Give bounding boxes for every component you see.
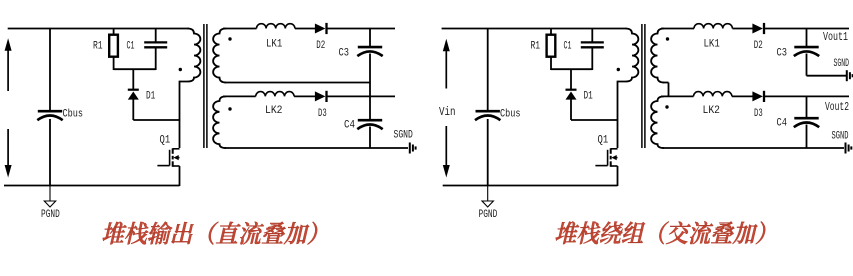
diode D1 (right) xyxy=(566,92,577,100)
svg-text:R1: R1 xyxy=(531,41,541,53)
wire: secondary1 return (left) xyxy=(225,82,371,84)
svg-text:D3: D3 xyxy=(754,108,763,120)
capacitor C4 (left) xyxy=(358,119,382,122)
capacitor C1 lead bottom (left) xyxy=(155,49,157,71)
svg-text:LK1: LK1 xyxy=(266,38,283,50)
diode D3 (left) xyxy=(315,91,326,101)
transformer T2 core (right) xyxy=(641,24,643,148)
wire: D2 to Vout1 node (right) xyxy=(764,28,849,30)
inductor LK2 (right) xyxy=(694,92,732,97)
wire: D1 to drain node (left) xyxy=(133,119,179,121)
wire: secondary1 top to LK1 (left) xyxy=(223,28,257,30)
transformer T2 secondary winding 2 (right) xyxy=(651,96,664,148)
svg-text:PGND: PGND xyxy=(479,209,498,221)
capacitor C1 lead bottom (right) xyxy=(591,49,593,71)
wire: secondary2 top to LK2 (left) xyxy=(223,95,256,97)
svg-text:C3: C3 xyxy=(777,48,788,60)
svg-text:C4: C4 xyxy=(777,117,788,129)
svg-text:SGND: SGND xyxy=(834,58,850,70)
resistor R1 lead bottom (left) xyxy=(113,57,115,71)
capacitor C4 (right) xyxy=(794,117,818,120)
caption: 堆栈输出（直流叠加） (left) xyxy=(101,222,319,245)
capacitor C3 lead top (left) xyxy=(369,29,371,47)
ground PGND (left) xyxy=(49,186,51,202)
capacitor C1 lead top (left) xyxy=(155,29,157,43)
node: secondary 1 phase dot (left) xyxy=(228,37,231,40)
diode D2 (left) xyxy=(315,24,326,34)
svg-text:LK2: LK2 xyxy=(265,105,283,117)
capacitor C3 (right) xyxy=(794,46,818,49)
svg-text:D1: D1 xyxy=(146,90,156,102)
capacitor C4 lead bottom (left) xyxy=(369,127,371,149)
resistor R1 (left) xyxy=(109,35,118,57)
transformer T1 primary winding (left) xyxy=(180,29,201,82)
capacitor C4 lead bottom (right) xyxy=(806,125,808,149)
annotation arrow down (Vin, right) xyxy=(443,165,450,178)
resistor R1 lead top (right) xyxy=(550,29,552,36)
annotation arrow down (bus voltage, left) xyxy=(5,165,12,178)
wire: Q1 source to bottom rail (right) xyxy=(617,166,619,186)
wire: D3 output to mid node stub (left) xyxy=(327,95,396,97)
transformer T1 secondary winding 1 (left) xyxy=(213,29,226,83)
resistor R1 lead top (left) xyxy=(113,29,115,36)
diode D2 (right) xyxy=(752,24,763,34)
wire: D1 to drain node (right) xyxy=(571,119,618,121)
ground PGND (right) xyxy=(487,186,489,202)
diode D3 (right) xyxy=(752,91,763,101)
wire: stack junction to LK2 (right) xyxy=(661,95,694,97)
svg-text:D2: D2 xyxy=(316,40,325,52)
diode D1 lead top (right) xyxy=(570,69,572,89)
svg-text:SGND: SGND xyxy=(832,131,849,143)
svg-text:LK1: LK1 xyxy=(704,38,721,50)
wire: input bottom rail (left circuit) xyxy=(4,185,180,187)
wire: D3 to Vout2 node (right) xyxy=(764,95,849,97)
inductor LK1 (right) xyxy=(694,24,732,29)
capacitor Cbus (right) xyxy=(476,110,500,113)
transformer T2 secondary winding 1 (right) xyxy=(651,29,664,83)
capacitor C4 lead top (right) xyxy=(806,96,808,117)
svg-text:Cbus: Cbus xyxy=(500,108,521,120)
capacitor C1 (left) xyxy=(144,41,167,43)
wire: LK2 to D3 (right) xyxy=(732,95,753,97)
wire: primary bottom to Q1 drain (left) xyxy=(179,81,181,148)
diode D1 lead bottom (right) xyxy=(570,99,572,120)
svg-text:LK2: LK2 xyxy=(703,105,721,117)
svg-text:Vout1: Vout1 xyxy=(823,30,848,44)
resistor R1 (right) xyxy=(547,35,556,57)
transformer T1 secondary winding 2 (left) xyxy=(213,96,226,148)
wire: secondary1 bottom to stack junction (right) xyxy=(663,82,669,84)
capacitor C1 (right) xyxy=(581,41,604,43)
svg-text:R1: R1 xyxy=(93,41,103,53)
ground SGND output2 (right) xyxy=(845,143,847,154)
svg-text:SGND: SGND xyxy=(394,130,414,142)
transistor Q1 (right) xyxy=(610,148,612,154)
svg-text:D2: D2 xyxy=(754,40,763,52)
resistor R1 lead bottom (right) xyxy=(550,57,552,71)
wire: C3 bottom to SGND (right) xyxy=(806,54,808,76)
capacitor C1 lead top (right) xyxy=(591,29,593,43)
svg-text:C3: C3 xyxy=(339,48,350,60)
ground SGND (left) xyxy=(409,143,411,154)
wire: RC snubber bottom (right) xyxy=(551,68,592,70)
wire: input top rail (left circuit) xyxy=(8,28,189,30)
node: secondary 2 phase dot (right) xyxy=(665,105,668,108)
svg-text:C1: C1 xyxy=(127,41,135,53)
wire: Q1 source to bottom rail (left) xyxy=(179,166,181,186)
wire: secondary2 return to SGND (left) xyxy=(225,147,409,149)
svg-text:PGND: PGND xyxy=(41,209,60,221)
svg-text:Q1: Q1 xyxy=(160,135,171,147)
wire: secondary1 top to LK1 (right) xyxy=(661,28,694,30)
capacitor Cbus (left) xyxy=(38,110,62,113)
wire: input top rail (right circuit) xyxy=(442,28,627,30)
svg-text:D1: D1 xyxy=(584,90,594,102)
wire: primary bottom to Q1 drain (right) xyxy=(617,81,619,148)
node: primary phase dot (right) xyxy=(617,68,620,71)
annotation arrow up (Vin, right) xyxy=(443,39,450,52)
transformer T2 primary winding (right) xyxy=(618,29,639,82)
transistor Q1 (left) xyxy=(172,148,174,154)
wire: RC snubber bottom (left) xyxy=(114,68,156,70)
capacitor Cbus lead top (left) xyxy=(49,29,51,111)
svg-text:Vout2: Vout2 xyxy=(825,100,849,114)
wire: LK1 to D2 (right) xyxy=(732,28,753,30)
capacitor Cbus lead bottom (left) xyxy=(49,119,51,186)
node: secondary 1 phase dot (right) xyxy=(666,37,669,40)
diode D1 (left) xyxy=(128,92,139,100)
svg-text:Cbus: Cbus xyxy=(63,108,84,120)
svg-text:D3: D3 xyxy=(318,108,327,120)
diode D1 lead top (left) xyxy=(132,69,134,89)
wire: LK1 to D2 (left) xyxy=(295,28,316,30)
inductor LK2 (left) xyxy=(256,92,294,97)
caption: 堆栈绕组（交流叠加） (right) xyxy=(554,221,767,244)
svg-text:Vin: Vin xyxy=(439,105,456,119)
capacitor C3 lead top (right) xyxy=(806,29,808,47)
diode D1 lead bottom (left) xyxy=(132,99,134,120)
annotation arrow up (bus voltage, left) xyxy=(5,38,12,51)
svg-text:Q1: Q1 xyxy=(598,135,609,147)
wire: secondary2 return to SGND (right) xyxy=(663,147,845,149)
wire: C3 bottom / mid node (left) xyxy=(369,54,371,120)
inductor LK1 (left) xyxy=(257,24,295,29)
wire: LK2 to D3 (left) xyxy=(294,95,315,97)
capacitor Cbus lead bottom (right) xyxy=(487,119,489,186)
wire: D2 to output node V1 (left) xyxy=(327,28,396,30)
ground SGND output1 (right) xyxy=(846,70,848,81)
transformer T1 core (left) xyxy=(203,24,205,148)
node: primary phase dot (left) xyxy=(179,68,182,71)
svg-text:C4: C4 xyxy=(344,119,355,131)
svg-text:C1: C1 xyxy=(564,41,572,53)
capacitor C3 (left) xyxy=(358,46,382,49)
wire: input bottom rail (right circuit) xyxy=(443,185,618,187)
node: secondary 2 phase dot (left) xyxy=(228,107,231,110)
capacitor Cbus lead top (right) xyxy=(487,29,489,111)
